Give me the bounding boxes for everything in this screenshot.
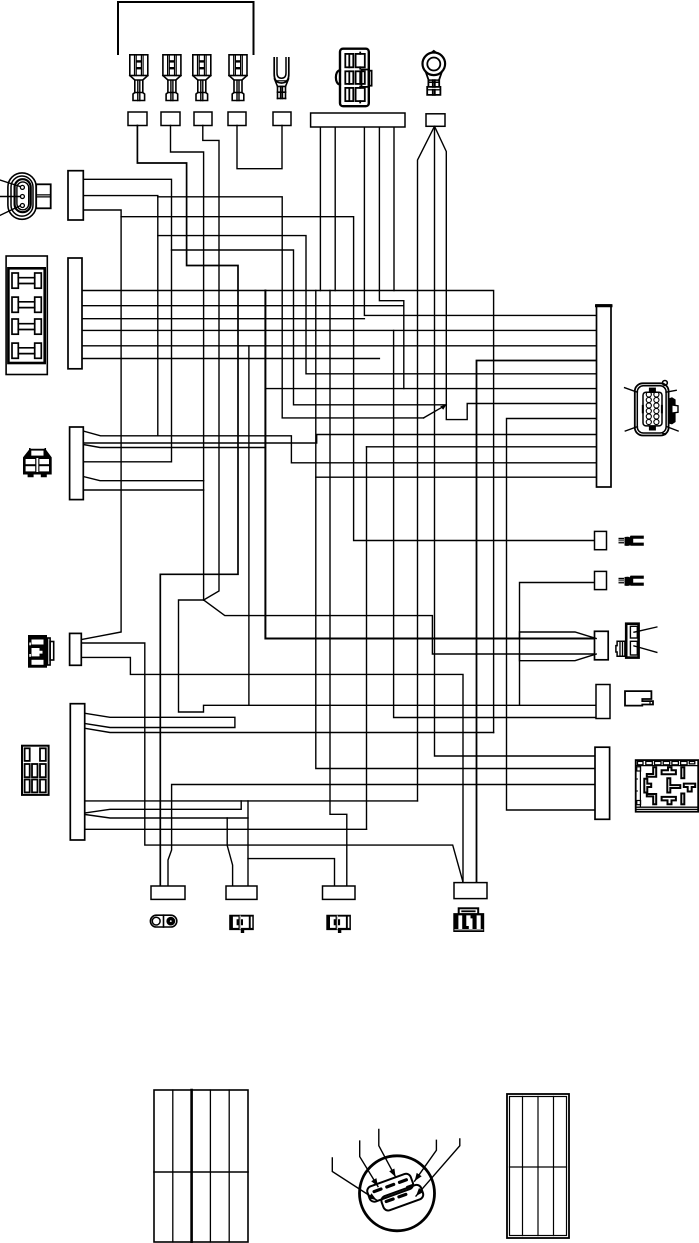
spade terminal T3 [193, 55, 211, 101]
wire barF pin3 to box1 [168, 785, 595, 887]
wire ring terminal right leg [435, 126, 597, 419]
bottom stub box4 [454, 883, 487, 899]
fork terminal [274, 58, 289, 99]
wire jumper box2-box3 [248, 859, 335, 886]
ring terminal [423, 51, 446, 95]
bottom stub box3 [323, 886, 356, 899]
wire barB w1 long [83, 291, 494, 733]
splice arrowhead [440, 405, 446, 410]
wire barA w1 loop to barC [83, 179, 171, 462]
wire box1-to-fuse-area trunk [137, 126, 238, 887]
R3 stub box [595, 631, 609, 660]
wire jumper box4-box5 [237, 126, 282, 169]
leader lines R3 [634, 627, 657, 652]
top bracket [118, 2, 254, 54]
wire barB w3 [83, 318, 364, 320]
leader lines circle connector [332, 1129, 460, 1200]
2-pin icon A [229, 915, 254, 933]
wire row10 [367, 446, 597, 448]
wire barB w6 [83, 358, 379, 360]
R3 flag lower [520, 654, 597, 661]
wire ring terminal left leg [418, 126, 435, 801]
stub box B1 [128, 112, 147, 126]
wire row8 to R2 [507, 419, 597, 811]
R1 fork icon [619, 536, 644, 546]
circle connector [360, 1156, 435, 1231]
wire bus2 to barF pin4 [330, 127, 347, 886]
wire splice diagonal [424, 405, 447, 418]
wire barB w5 row3 [83, 345, 597, 347]
wire box3 trunk [203, 126, 219, 601]
R2 stub box [595, 571, 607, 589]
ring stub box [426, 114, 445, 127]
wire node west south to box2 [179, 600, 597, 712]
3-pin connector icon [28, 635, 54, 668]
wire barE lower loop return [85, 801, 241, 813]
12-pin connector [635, 381, 678, 436]
wire ring terminal center [435, 126, 596, 756]
stub box B4 [228, 112, 246, 126]
wire barE upper loop [85, 713, 235, 727]
wire branch down from row2 [394, 330, 596, 717]
wire branch 235 [158, 236, 597, 374]
wire vertical 366 [366, 447, 368, 830]
spade terminal T2 [163, 55, 181, 101]
wire barE w2 [85, 728, 494, 732]
stub box B3 [194, 112, 212, 126]
connector G relay block [636, 760, 699, 812]
bottom-left grid [154, 1090, 248, 1242]
bus bar [311, 113, 405, 127]
oval 3-pin connector [8, 173, 51, 219]
fuse block [6, 256, 47, 375]
wire trunk 265 to R3 upper [265, 291, 596, 639]
wire bus5 [393, 127, 395, 291]
R3 icon 2-slot connector [616, 624, 639, 658]
wire barD w2 [81, 643, 462, 883]
wire bus3 to barR row1 [364, 127, 596, 315]
wire barE loop out [85, 800, 418, 802]
bar A [68, 171, 83, 220]
wire barC w3 [83, 445, 265, 448]
R4 icon L-connector [625, 691, 653, 706]
bar E [70, 704, 84, 840]
8-hole connector [22, 746, 49, 795]
bottom stub box2 [226, 886, 257, 899]
wire barC w2 step row9 [83, 435, 596, 444]
wire box2 right pin [247, 801, 249, 886]
wire barD w3 to box4 [81, 657, 463, 882]
bottom-right grid [507, 1094, 569, 1238]
3-pin bottom icon [453, 908, 484, 932]
6-slot connector [336, 49, 372, 106]
bar C [70, 427, 84, 500]
R3 flag upper [520, 632, 597, 639]
2-hole terminal icon [150, 915, 176, 927]
wire trunk 248 to R4 upper [248, 346, 250, 706]
bar R top cap [597, 304, 612, 307]
wire row7 [158, 197, 424, 418]
wire branch to R1 [121, 217, 594, 541]
wire box2 left pin kink [227, 818, 232, 886]
stub box B2 [161, 112, 180, 126]
bar B [68, 258, 82, 369]
wire branch 250 [172, 250, 447, 405]
stub box B5 [273, 112, 291, 126]
wire bus1 to barF pin2 [316, 127, 595, 769]
R1 stub box [595, 531, 607, 549]
wire row4 to box4 right [477, 361, 597, 883]
spade terminal T1 [130, 55, 148, 101]
wire R2 to R4 riser [520, 583, 597, 706]
leader lines 12-pin [625, 388, 679, 431]
wire barA w3 to barD [81, 210, 121, 640]
wire barB w2 [83, 305, 404, 307]
bar D [70, 633, 82, 665]
wire barE w5 [85, 828, 367, 830]
wire bus4 jog [379, 127, 403, 389]
wire node to R3 lower [204, 600, 597, 654]
bar F [595, 747, 610, 819]
R2 fork icon [619, 576, 644, 586]
spade terminal T4 [229, 55, 247, 101]
wire barC w1 to row11 [83, 431, 596, 463]
R4 stub box [596, 685, 610, 719]
bar R [597, 305, 612, 487]
wire row6 [265, 388, 596, 390]
wire box2 trunk [171, 126, 204, 601]
wire barA w2 [83, 196, 158, 436]
leader lines oval connector [0, 180, 20, 215]
wire barR row12 [316, 476, 597, 478]
bottom stub box1 [151, 886, 185, 899]
wire barE pin6 to box2 [85, 815, 248, 819]
2-pin icon B [326, 915, 351, 933]
wire barC w5 [83, 477, 203, 481]
4-pin trailer connector [23, 449, 52, 478]
wire barB w4 row2 [83, 329, 597, 331]
wire barC w6 [83, 489, 203, 491]
